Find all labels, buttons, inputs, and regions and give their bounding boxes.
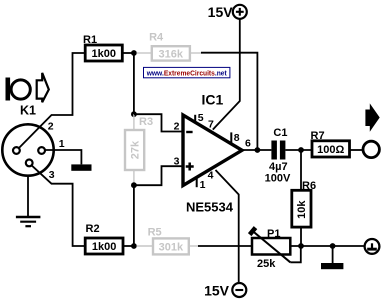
svg-text:316k: 316k [159, 48, 184, 60]
wire R6 to ground node [300, 227, 302, 246]
wire +15V to pin 7 [213, 19, 240, 130]
wire R2 to node D [123, 245, 134, 247]
svg-text:15V: 15V [204, 282, 230, 298]
svg-text:R5: R5 [148, 226, 162, 238]
wire node C to node D [133, 185, 135, 246]
svg-text:R1: R1 [83, 34, 97, 46]
wire P1 wiper to ground node [290, 248, 301, 262]
wire to chassis ground [332, 246, 334, 263]
pin 8 tick [230, 132, 232, 143]
wire pin1 to chassis [45, 150, 81, 164]
earth ground [16, 217, 41, 226]
-15V supply symbol [204, 282, 246, 298]
resistor R3 (grey, optional) [125, 114, 153, 185]
svg-text:R7: R7 [311, 130, 325, 142]
output terminal circle [363, 141, 379, 157]
wire R7 to output terminal [350, 149, 364, 151]
chassis ground bar (pin1) [71, 164, 91, 170]
pin 5 tick [194, 115, 196, 123]
XLR pin 3 contact [26, 160, 33, 167]
svg-text:7: 7 [208, 119, 214, 131]
capacitor C1 [265, 127, 291, 184]
node D junction dot [131, 243, 137, 249]
output arrow symbol [365, 103, 379, 131]
wire R5 to P1 [198, 245, 252, 247]
node E junction dot [298, 147, 304, 153]
svg-text:C1: C1 [273, 127, 287, 139]
op-amp IC1 [183, 115, 242, 186]
svg-text:301k: 301k [159, 242, 184, 254]
svg-text:27k: 27k [129, 140, 141, 159]
svg-text:2: 2 [48, 121, 54, 133]
svg-text:R3: R3 [139, 116, 153, 128]
wire pin3 to R2 [32, 166, 85, 246]
svg-text:5: 5 [198, 112, 204, 124]
microphone input symbol [6, 73, 49, 102]
wire R1 to node A [122, 52, 134, 54]
svg-text:IC1: IC1 [202, 92, 224, 108]
wire op-amp output to C1 [242, 149, 271, 151]
svg-text:K1: K1 [20, 104, 36, 118]
www.ExtremeCircuits.net banner [144, 67, 230, 77]
ground terminal circle [365, 239, 380, 254]
chassis node junction dot [330, 243, 336, 249]
resistor R1 [83, 34, 122, 61]
svg-text:3: 3 [49, 169, 55, 181]
svg-text:NE5534: NE5534 [186, 199, 234, 214]
resistor R5 (grey, optional) [137, 226, 199, 254]
svg-text:15V: 15V [208, 4, 234, 20]
wire C1 to R7 [285, 149, 312, 151]
wire node C to op-amp pin 3 [134, 166, 182, 185]
node C junction dot [131, 182, 137, 188]
XLR pin 2 contact [13, 147, 20, 154]
ground node junction dot [298, 243, 304, 249]
wire P1 to ground terminal [290, 245, 364, 247]
wire node B to op-amp pin 2 [134, 114, 182, 131]
svg-text:2: 2 [174, 121, 180, 133]
node B junction dot [131, 111, 137, 117]
wire shell to earth ground [27, 176, 29, 216]
XLR connector K1 body [2, 124, 53, 175]
svg-text:4µ7: 4µ7 [269, 161, 288, 173]
chassis ground bar (output) [321, 263, 343, 269]
node A junction dot [131, 50, 137, 56]
svg-text:R4: R4 [149, 31, 164, 43]
trimmer P1 [250, 228, 291, 271]
svg-text:www.ExtremeCircuits.net: www.ExtremeCircuits.net [146, 68, 227, 77]
svg-text:8: 8 [234, 132, 240, 144]
output node junction dot [255, 147, 261, 153]
svg-text:1: 1 [59, 138, 65, 150]
feedback wire R4 to output node [201, 53, 257, 150]
resistor R2 [85, 223, 123, 254]
+15V supply symbol [208, 4, 247, 20]
svg-text:4: 4 [208, 170, 214, 182]
svg-text:3: 3 [174, 155, 180, 167]
svg-text:R6: R6 [302, 180, 316, 192]
vertical node wire (node A to node B) [133, 53, 135, 114]
svg-text:P1: P1 [267, 228, 280, 240]
pin 1 tick [196, 178, 198, 188]
svg-text:1k00: 1k00 [92, 241, 116, 253]
wire pin2 to R1 [19, 53, 85, 148]
XLR pin 1 contact [38, 147, 45, 154]
svg-text:10k: 10k [296, 200, 308, 219]
resistor R7 [311, 130, 350, 157]
svg-text:R2: R2 [86, 223, 100, 235]
svg-text:1k00: 1k00 [92, 48, 116, 60]
svg-text:100V: 100V [265, 172, 291, 184]
svg-text:100Ω: 100Ω [317, 144, 344, 156]
resistor R6 [292, 180, 316, 227]
svg-text:1: 1 [200, 179, 206, 191]
svg-text:25k: 25k [257, 258, 276, 270]
resistor R4 (grey, optional) [137, 31, 202, 60]
wire pin 4 to -15V [216, 170, 239, 283]
wire node E to R6 [300, 150, 302, 190]
svg-text:6: 6 [245, 137, 251, 149]
